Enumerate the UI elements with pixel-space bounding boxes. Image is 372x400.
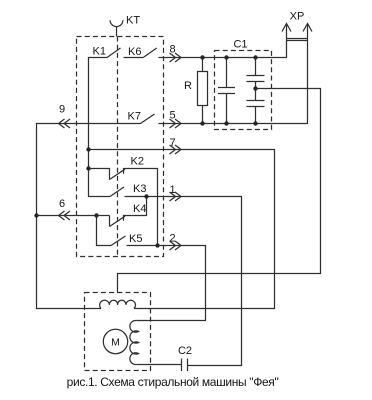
connector pin 2 chevrons [169,233,181,251]
svg-text:K5: K5 [129,233,142,245]
svg-text:2: 2 [169,233,175,245]
connector pin 7 chevrons [169,137,181,154]
junction dot C1c bottom [253,121,257,125]
svg-text:5: 5 [169,110,175,122]
junction dot K2 tap on bus [86,166,90,170]
connector pin 5 chevrons [169,110,181,129]
wire capacitor mid-tap to motor main winding tap [118,89,321,294]
svg-text:9: 9 [59,104,65,116]
svg-text:K7: K7 [128,111,141,123]
capacitor C1b (upper of series pair) [247,58,265,82]
plug XP [282,11,312,41]
junction dot K5 out on net 2 [155,243,159,247]
motor aux winding (inductor) [130,320,139,364]
svg-text:K2: K2 [131,156,144,168]
wire net 1: K3 out to C2 right plate [125,197,242,366]
KT camshaft linkage (dashed) [117,37,119,257]
junction dot capacitor mid-tap [253,86,257,90]
svg-text:KT: KT [126,15,140,27]
svg-text:рис.1. Схема стиральной машины: рис.1. Схема стиральной машины "Фея" [67,375,279,389]
program switch unit dashed box [77,37,164,257]
svg-text:C1: C1 [233,39,247,51]
wire net 2: to motor aux winding top [136,246,205,321]
contact K1 [93,46,121,58]
contact K4 (normally closed) [110,203,147,227]
svg-text:M: M [111,336,120,348]
timer cam KT [110,15,140,37]
junction dot K4 out on net 1 [144,194,148,198]
capacitor C1a (middle) [218,58,235,124]
junction dot K5 branch on net 6 [94,213,98,217]
contact K2 (normally closed) [89,156,144,180]
junction dot R top [200,55,204,59]
svg-text:K6: K6 [128,46,141,58]
svg-text:1: 1 [169,184,175,196]
svg-text:R: R [184,80,192,92]
junction dot C1a bottom [224,121,228,125]
svg-text:C2: C2 [178,345,192,357]
connector pin 6 chevrons [59,198,71,220]
svg-text:7: 7 [169,137,175,149]
wire net 8: K6 out to XP left pin [159,25,287,58]
connector pin 8 chevrons [169,44,181,63]
svg-text:K1: K1 [93,46,106,58]
svg-text:K3: K3 [133,183,146,195]
connector pin 9 chevrons [59,104,71,129]
contact K7 [128,111,155,124]
capacitor C1c (lower of series pair) [247,82,265,124]
wire net 6: left bus tap to K4 [37,215,110,217]
capacitor block C1 dashed box [215,39,272,130]
junction dot net 6 on left bus [34,213,38,217]
svg-text:6: 6 [59,198,65,210]
svg-text:XP: XP [290,11,305,23]
junction dot C1b top [253,55,257,59]
wire net 5: K7 out to XP right pin [159,25,308,124]
wire aux winding bottom to C2 [136,364,181,366]
wire net 9: left bus, row to K7 [37,124,141,309]
wire K4 out up to net 1 [124,197,147,216]
connector pin 1 chevrons [169,184,181,201]
svg-text:8: 8 [169,44,175,56]
contact K6 [128,46,157,58]
bus wire from K1 left terminal down to K3 [89,58,111,197]
junction dot net 7 tap on bus [86,147,90,151]
svg-text:K4: K4 [133,203,146,215]
contact K5 [111,233,142,246]
wire K5 out [127,245,158,247]
junction dot R bottom [200,121,204,125]
junction dot C1a top [224,55,228,59]
motor unit dashed box [85,293,151,371]
wire net 7: bus tap to motor main winding right end [89,150,275,309]
motor main winding (inductor) [100,300,136,308]
capacitor C2 [178,345,192,371]
resistor R [184,58,207,124]
contact K3 [110,183,146,197]
wire net 2 vertical: K2 out down to K5 out [124,169,158,246]
wire K1 to K6 [124,57,144,59]
motor M circle [103,329,127,353]
wire K5 branch from net 6 [97,216,112,246]
